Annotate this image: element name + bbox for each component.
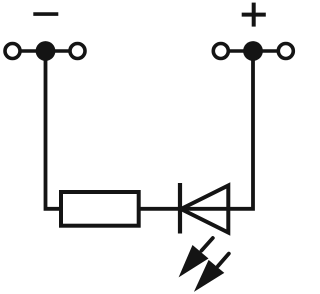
minus polarity label <box>33 12 58 16</box>
node junction right <box>243 41 263 61</box>
resistor R1 <box>61 192 139 226</box>
terminal contact left inner <box>70 44 85 59</box>
wire right terminal bridge <box>221 49 286 53</box>
LED D1 triangle <box>181 186 228 233</box>
LED light arrow 2 <box>194 254 229 292</box>
LED light arrow 1 <box>179 238 213 277</box>
LED D1 cathode bar <box>178 183 182 234</box>
terminal contact right outer <box>278 44 293 59</box>
wire left terminal bridge <box>13 49 78 53</box>
terminal contact left outer <box>5 44 20 59</box>
wire plus terminal to LED <box>139 51 253 209</box>
wire minus terminal to resistor <box>46 51 60 209</box>
plus polarity label <box>242 3 266 27</box>
node junction left <box>36 41 56 61</box>
terminal contact right inner <box>213 44 228 59</box>
